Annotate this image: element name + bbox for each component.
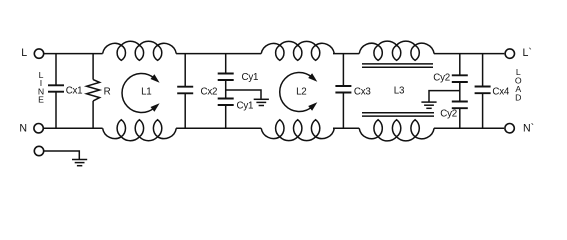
svg-text:L`: L`: [523, 47, 532, 59]
wire bottom rail L1 to L2: [176, 127, 261, 129]
svg-text:N: N: [19, 122, 27, 134]
wire R branch bottom: [92, 101, 94, 128]
terminal N': [505, 124, 514, 133]
svg-text:Cy1: Cy1: [237, 100, 254, 111]
wire bottom rail L3 to N': [434, 127, 504, 129]
svg-text:Cx4: Cx4: [492, 87, 509, 98]
L2 circulating arrow: [280, 73, 312, 112]
capacitor Cx4: [475, 86, 491, 88]
svg-text:Cy2: Cy2: [433, 73, 450, 84]
capacitor Cy2 upper: [452, 74, 468, 76]
ground symbol earth: [72, 159, 87, 161]
wire top rail L2 to L3: [333, 53, 359, 55]
wire top rail L1 to L2: [176, 53, 261, 55]
wire Cx1 branch bottom: [55, 92, 57, 129]
svg-text:E: E: [38, 95, 44, 105]
terminal L': [505, 49, 514, 58]
wire bottom rail L2 to L3: [333, 127, 359, 129]
svg-text:Cy1: Cy1: [242, 72, 259, 83]
wire Cy2 mid: [459, 82, 461, 102]
wire Cy1 mid: [225, 80, 227, 99]
inductor L2 bottom winding: [261, 120, 334, 141]
inductor L1 top winding: [103, 41, 177, 60]
wire Cx2 branch top: [184, 54, 186, 87]
svg-text:N`: N`: [523, 122, 534, 134]
svg-text:L2: L2: [296, 87, 306, 98]
ground symbol Cy1: [254, 98, 269, 100]
capacitor Cy1 lower: [218, 98, 234, 100]
L1 circulating arrow: [122, 74, 154, 113]
L3 top core: [362, 63, 433, 65]
svg-text:L3: L3: [394, 85, 405, 96]
wire Cy2 branch top: [459, 54, 461, 76]
terminal L: [34, 49, 43, 58]
svg-text:Cx3: Cx3: [354, 86, 371, 97]
ground symbol Cy2: [421, 101, 436, 103]
wire Cx1 branch top: [55, 54, 57, 86]
svg-text:L1: L1: [141, 87, 151, 98]
wire bottom rail from N to L1: [43, 127, 102, 129]
inductor L3 top winding: [359, 41, 434, 60]
wire Cx3 branch top: [342, 54, 344, 86]
wire Cx4 branch top: [482, 54, 484, 87]
wire Cx3 branch bottom: [342, 93, 344, 129]
inductor L1 bottom winding: [103, 120, 177, 141]
wire top rail L3 to L': [434, 53, 504, 55]
wire Cx2 branch bottom: [184, 93, 186, 128]
wire R branch top: [92, 54, 94, 80]
svg-text:D: D: [515, 92, 521, 102]
capacitor Cx2: [177, 86, 193, 88]
wire Cy1 to ground: [226, 90, 261, 99]
capacitor Cy2 lower: [452, 101, 468, 103]
wire Cy1 branch top: [225, 54, 227, 74]
L3 bottom core: [362, 112, 434, 114]
wire top rail from L to L1: [44, 53, 103, 55]
capacitor Cx3: [335, 85, 351, 87]
terminal N: [34, 124, 43, 133]
inductor L3 bottom winding: [359, 120, 434, 141]
wire Cy2 branch bottom: [459, 108, 461, 128]
svg-text:Cx1: Cx1: [66, 85, 83, 96]
terminal E ground: [34, 146, 43, 155]
svg-text:Cy2: Cy2: [440, 109, 457, 120]
capacitor Cy1 upper: [218, 73, 234, 75]
inductor L2 top winding: [261, 41, 334, 60]
svg-text:Cx2: Cx2: [201, 86, 218, 97]
wire Cy1 branch bottom: [225, 105, 227, 128]
svg-text:R: R: [104, 86, 111, 97]
resistor R: [87, 80, 100, 101]
wire Cy2 to ground: [429, 91, 460, 102]
wire Cx4 branch bottom: [482, 93, 484, 128]
capacitor Cx1: [48, 84, 64, 86]
wire earth terminal to ground: [44, 151, 80, 160]
svg-text:L: L: [21, 47, 27, 59]
